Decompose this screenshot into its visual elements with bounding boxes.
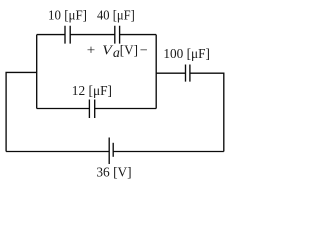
svg-text:+: + bbox=[87, 44, 96, 59]
svg-text:12 [μF]: 12 [μF] bbox=[72, 84, 112, 99]
svg-text:36 [V]: 36 [V] bbox=[96, 166, 131, 181]
svg-text:40 [μF]: 40 [μF] bbox=[97, 8, 135, 23]
svg-text:100 [μF]: 100 [μF] bbox=[163, 47, 210, 62]
svg-text:[V]: [V] bbox=[120, 44, 138, 59]
svg-text:10 [μF]: 10 [μF] bbox=[48, 8, 87, 23]
svg-text:−: − bbox=[140, 44, 148, 59]
svg-text:V: V bbox=[102, 44, 113, 59]
